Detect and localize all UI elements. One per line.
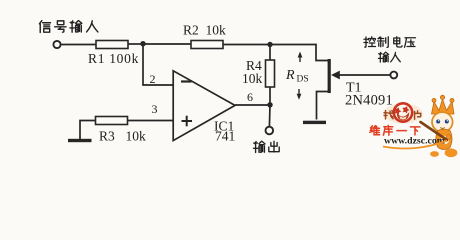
resistor R4 — [266, 60, 275, 87]
mascot body — [436, 129, 452, 149]
op-amp U1 triangle — [173, 71, 235, 141]
wire input to R1 — [61, 44, 96, 46]
op-amp minus sign — [181, 80, 192, 82]
input terminal circle — [53, 41, 60, 48]
wire node B down to R4 — [269, 45, 271, 61]
mascot face — [432, 112, 453, 132]
svg-text:741: 741 — [215, 129, 235, 144]
magnifier handle — [421, 122, 448, 140]
wire node B to drain corner — [270, 45, 328, 61]
watermark logo — [370, 95, 458, 157]
RDS down arrow — [297, 89, 302, 100]
svg-text:2N4091: 2N4091 — [345, 93, 393, 109]
wire node C down to output terminal — [268, 105, 271, 127]
wire R2 to node B — [223, 44, 270, 46]
svg-text:10k: 10k — [242, 71, 263, 86]
output terminal circle — [266, 127, 274, 135]
wire node A down to pin 2 — [143, 44, 174, 85]
wire gate to control terminal — [339, 74, 390, 76]
mascot crown — [432, 95, 455, 114]
片 char — [415, 111, 421, 119]
svg-text:6: 6 — [247, 90, 253, 104]
orange swoosh — [383, 141, 447, 149]
RDS up arrow — [298, 52, 303, 63]
找 char — [384, 111, 393, 119]
transistor T1 gate arrowhead — [331, 71, 340, 80]
wire ground to R3 — [80, 121, 96, 140]
维库一下 red text — [370, 125, 420, 135]
resistor R1 — [96, 41, 128, 49]
svg-text:10k: 10k — [126, 129, 147, 144]
control terminal circle — [390, 72, 397, 79]
label 输入 (input, under control voltage) — [378, 52, 400, 62]
wire pin 6 output — [235, 104, 270, 106]
wire R4 to node C — [269, 87, 271, 105]
svg-text:2: 2 — [150, 72, 156, 86]
svg-text:R1 100k: R1 100k — [88, 51, 139, 66]
node A junction dot — [140, 41, 145, 46]
label 信号输入 (signal input) — [39, 21, 97, 33]
node C junction dot — [267, 102, 272, 107]
svg-text:R3: R3 — [99, 129, 115, 144]
ground (T1 source) — [303, 121, 326, 124]
transistor T1 source wire — [317, 92, 329, 120]
mascot arm — [446, 135, 451, 140]
svg-text:R2 10k: R2 10k — [183, 23, 226, 38]
label 控制电压 (control voltage) — [364, 37, 416, 48]
label 输出 (output) — [254, 141, 280, 152]
wire R3 to pin 3 — [128, 120, 175, 122]
svg-text:3: 3 — [152, 102, 158, 116]
op-amp plus sign — [182, 116, 193, 127]
svg-text:DS: DS — [297, 75, 309, 85]
mascot feet — [430, 151, 439, 157]
node B junction dot — [267, 42, 272, 47]
ground (R3) — [68, 139, 92, 142]
svg-text:R: R — [285, 68, 295, 83]
wire R1 to node A — [128, 43, 143, 45]
resistor R3 — [96, 117, 128, 125]
emblem circle (laughing face) — [394, 103, 412, 121]
transistor T1 channel bar — [328, 59, 331, 93]
wire node A to R2 — [143, 43, 191, 45]
halo behind 找好片 — [384, 104, 423, 124]
resistor R2 — [191, 41, 223, 49]
